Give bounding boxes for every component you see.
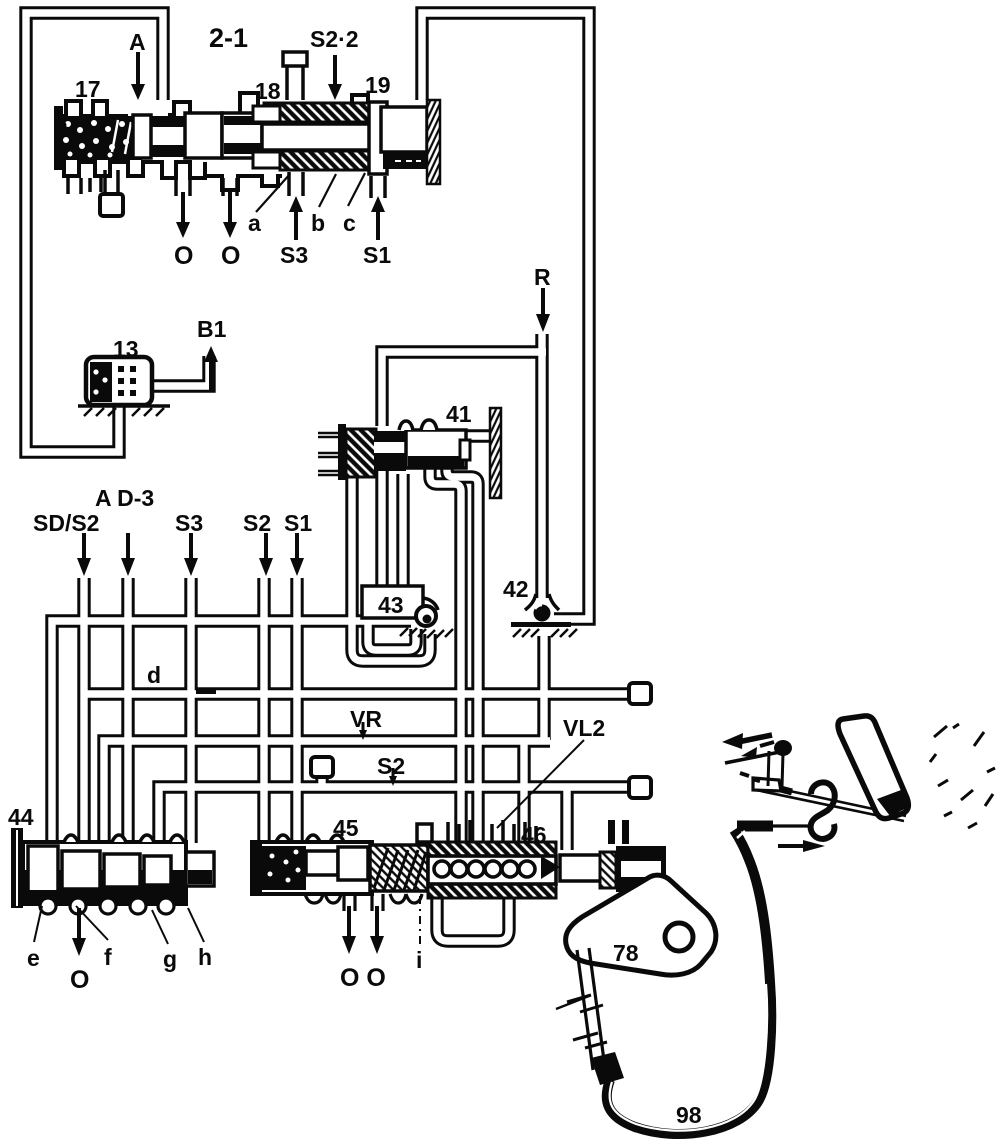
hatched bushing 46 [600,852,616,888]
right wall of valve 41 [490,408,501,498]
pivot plate [753,778,781,791]
white cores of all pipes [26,13,628,941]
upper thick arrow [738,735,772,742]
right end square of line d [629,683,651,704]
cable outer housing end [737,821,773,832]
bottom ports of valve 45 [344,894,383,911]
pedal pad [838,716,908,819]
wire: A/D-3 feed down to valve 44 [121,578,134,843]
upper thin rod with arrow [725,751,785,763]
small dash marks [740,773,760,781]
svg-text:45: 45 [333,815,359,841]
svg-text:R: R [534,264,551,290]
sleeve 18 lower hatched band [253,151,370,170]
leader g [152,910,168,944]
pedal tip blob [877,790,909,816]
wire: valve 41 right port to wall [464,429,494,442]
svg-text:19: 19 [365,72,391,98]
adjuster tick on link rod [556,996,589,1009]
top edge bumps of valve 44 [64,835,184,842]
svg-text:i: i [416,947,422,973]
arrow O below valve 44 [77,908,81,942]
spring section between 45 and 46 [370,845,428,891]
leader b [319,174,336,207]
wire: R supply line down to check valve 42 [535,334,548,598]
bottom port S1 [371,176,385,198]
svg-text:O: O [174,242,193,270]
svg-text:98: 98 [676,1102,702,1128]
arrow R down [541,288,545,318]
svg-text:A: A [129,29,146,55]
valve 17 body [54,93,445,194]
arrow O1 down [181,192,185,226]
arrow B1 up [209,358,213,390]
wire: check valve 43 inner loop below seat [368,618,416,650]
valve 19 end pieces [369,102,427,174]
leader c [348,173,365,206]
armature [374,431,406,471]
ball 43 [416,606,436,626]
connector pins [318,433,340,475]
arrow A/D-3 down [126,533,130,562]
wire: valve 46 bottom loop [437,896,509,941]
wire: valve 41 port down around check valve 43 (outer loop) [352,470,430,661]
wire: line from valve 44 up across to check valve 43 ball [52,621,411,843]
bellcrank 78 [566,875,716,975]
svg-text:41: 41 [446,401,472,427]
body outline 45 [252,842,372,894]
leader h [188,908,204,942]
pivot knob [774,740,792,756]
wire: top-right loop from valve 19 to check valve 42 [422,13,589,619]
top fins of sleeve 46 [448,820,536,842]
bowden cable 98 [607,830,772,1134]
tick on line S2 [392,768,395,780]
svg-text:42: 42 [503,576,529,602]
leader f [76,906,108,940]
svg-text:g: g [163,946,177,972]
arrow S3 feed down [189,533,193,562]
sleeve 46 bottom hatched band [428,884,556,898]
svg-text:VR: VR [350,706,382,732]
svg-text:S3: S3 [175,510,203,536]
wire: line d from SD/S2 line to right capped end [84,687,628,700]
svg-text:43: 43 [378,592,404,618]
svg-text:S1: S1 [284,510,312,536]
arrows O O below valve 45 [347,906,351,940]
left wall 44 [11,828,23,908]
right small body 44 [186,852,214,886]
bottom port O (left) [176,178,190,196]
arrow S1 feed down [295,533,299,562]
svg-text:VL2: VL2 [563,715,605,741]
wire: vertical from check valve 42 down to valve 46 [537,636,550,740]
svg-text:13: 13 [113,336,139,362]
svg-text:b: b [311,210,325,236]
svg-text:O: O [221,242,240,270]
funnel to ball 43 [423,598,438,610]
spool 45 [306,851,338,875]
left wall 45 [252,840,262,896]
svg-text:46: 46 [521,822,547,848]
ground hatch under valve 13 [78,406,170,416]
top edge bumps of valve 45 [276,835,344,842]
leader i dash-dot [419,896,421,944]
white slit in cable elbow [737,831,745,838]
sleeve 18 inner spool [262,124,372,150]
svg-text:O: O [70,966,89,994]
hatched wall at right of valve 19 [427,100,440,184]
seat bar 42 [511,622,571,627]
svg-text:e: e [27,945,40,971]
pedal rod [756,784,906,821]
svg-text:SD/S2: SD/S2 [33,510,99,536]
top stub on end block 46 [608,820,615,844]
wire: valve 41 second feed into check valve 43 housing [396,474,409,588]
cap of stub on line S2 [311,757,333,777]
debris marks near pedal [930,724,995,828]
svg-text:S2: S2 [243,510,271,536]
sleeve 18 upper hatched band [253,103,370,122]
wire: S2 feed down to valve 45 [257,578,270,846]
svg-text:S2: S2 [377,753,405,779]
arrow A down [136,52,140,88]
wire: valve 41 drain down to valve 46 (right) [447,468,478,842]
spool land 2 [185,113,222,158]
wire: valve 41 drain down to valve 46 (left) [430,468,461,842]
wire: line VR from valve 44 to vertical at 42 [104,741,550,843]
spool land 3 with bands [222,113,262,158]
bottom port S3 [289,172,303,196]
valve 41 body [406,430,466,468]
leader a [256,174,290,212]
wire: R branch to solenoid valve 41 [382,352,546,426]
vertical link [768,751,783,787]
inner cable to hook [773,824,813,827]
arrow S2 feed down [264,533,268,562]
arrow S3 up [294,208,298,240]
seat hatch 42 [513,629,577,637]
tick on line VR [362,722,365,734]
arrow S2-2 down [333,55,337,88]
right arrow [778,844,806,848]
plunger tip 46 [541,856,560,879]
ball 42 [534,605,551,622]
dark section 45 [262,846,306,890]
body 44 [23,842,186,904]
hook clevis [811,782,835,839]
link rod below bellcrank [577,948,605,1070]
svg-text:S3: S3 [280,242,308,268]
rod-link junction [762,784,792,792]
svg-text:d: d [147,662,161,688]
svg-text:18: 18 [255,78,281,104]
svg-text:44: 44 [8,804,34,830]
housing hat of check valve 43 [362,586,423,618]
hole in bellcrank 78 [665,923,693,951]
wire: branch of line S2 down to valve 46 [560,787,573,850]
svg-text:S1: S1 [363,242,391,268]
tick under label d [196,688,216,694]
valve body bottom edge between spool lands and sleeve 18 [205,176,282,190]
svg-text:c: c [343,210,356,236]
svg-text:A D-3: A D-3 [95,485,154,511]
leader e [34,906,42,942]
left end port stubs of valve 17 [68,178,101,194]
spring coils 46 [428,856,556,884]
top ports of valve 41 [399,420,437,430]
wire: valve 13 to node B1 [146,356,209,386]
flare bell of check valve 42 [525,594,559,610]
bottom port O (right) [223,178,237,196]
port stub with cap on top of valve (S2-2 side) [283,52,307,100]
svg-text:a: a [248,210,261,236]
wire: SD/S2 feed down to valve 44 [77,578,90,843]
arrow SD/S2 down [82,533,86,562]
arrow O2 down [228,192,232,226]
svg-text:2-1: 2-1 [209,23,248,53]
wire: capped stub on line S2 [315,774,328,787]
seat hatch 43 [400,628,453,638]
wire: continuation down from VR junction to valve 46 [517,744,530,850]
spool land [133,115,151,158]
end block 46 [616,846,666,892]
push rod 46 [560,855,602,881]
svg-text:S2·2: S2·2 [310,26,359,52]
svg-text:h: h [198,944,212,970]
arrow S1 up [376,208,380,240]
sleeve 46 top hatched band [428,842,556,856]
valve body top edge between port A and sleeve 18 [168,93,368,115]
port stub with cap below valve 17 [100,170,123,216]
leader VL2 [497,740,584,828]
svg-text:17: 17 [75,76,101,102]
wire: valve 41 port down to check valve 43 ball (inner loop) [375,470,388,588]
cable end fitting [591,1052,624,1085]
svg-text:B1: B1 [197,316,227,342]
wire: line S2 lower from valve 44 to right capped end [159,787,628,843]
coil hatched [346,429,376,477]
bottom castellation 44 [26,890,184,904]
svg-text:O O: O O [340,964,386,992]
right end square of line S2 [629,777,651,798]
wire: S1 feed down to valve 45 [290,578,303,846]
wire: top-left loop from valve 17 port A around left side down to valve 13 [26,13,163,452]
spool stem black bands [151,116,196,127]
svg-text:f: f [104,944,112,970]
wire: S3 feed down to valve 44 [184,578,197,843]
svg-text:78: 78 [613,940,639,966]
